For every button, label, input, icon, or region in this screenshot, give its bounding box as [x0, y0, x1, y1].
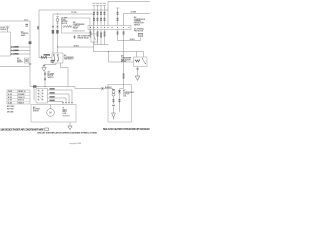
wire motor ground lead	[69, 122, 71, 126]
wire fuse line into condenser switch	[39, 57, 52, 59]
label wire 2 color	[14, 50, 18, 52]
connector arrow up C9	[44, 73, 46, 77]
wire drop pin6 to thermal line	[117, 30, 119, 41]
svg-text:SWITCH: SWITCH	[48, 77, 54, 79]
wire column 5	[116, 8, 119, 26]
connector C3 below relay box	[74, 35, 76, 39]
connector C13 on clutch return	[112, 105, 114, 107]
clutch diode D1	[118, 90, 121, 93]
label clutch return b x=118.5	[119, 101, 121, 102]
relay K2 condenser fan relay box	[134, 57, 148, 67]
switch S1 contact A	[53, 54, 54, 55]
antenna / sensor symbol	[6, 26, 10, 32]
switch S2 contacts rail A	[38, 90, 39, 91]
label drop pin x=100.1	[100, 33, 102, 34]
label clutch return x=118.5	[119, 99, 121, 100]
svg-text:CONDENSER: CONDENSER	[121, 57, 132, 59]
label fuse 3 amp rating	[100, 3, 103, 4]
label circuit col x=97.5	[97, 18, 99, 19]
label fuse F2 rating	[44, 54, 51, 56]
label circuit col x=117.5	[117, 18, 119, 19]
label under switch box b	[51, 62, 54, 63]
ground G2 triangle	[42, 68, 46, 72]
svg-text:BLOCK: BLOCK	[62, 23, 68, 25]
label wire 1 color	[14, 46, 18, 48]
wire fuse column 1	[93, 6, 96, 26]
label clutch return b x=112.5	[113, 101, 115, 102]
label drop pin x=103.6	[104, 32, 106, 33]
ground G1 below relay K2	[135, 76, 140, 81]
wire W3 to fan relay coil	[109, 52, 134, 63]
motor M1 circle	[47, 109, 55, 117]
switch S2 wiper marks	[39, 91, 42, 100]
svg-text:PROTECTOR: PROTECTOR	[134, 30, 144, 32]
wire to ground arrow	[113, 107, 115, 113]
svg-text:SWITCH: SWITCH	[17, 62, 23, 64]
module blower motor and resistor box	[31, 105, 76, 123]
legend table	[7, 90, 30, 104]
label wire blower M1 color	[50, 96, 55, 97]
label wire color col x=104.5	[104, 12, 106, 13]
svg-text:FUSE: FUSE	[62, 19, 66, 21]
svg-text:CONTROL: CONTROL	[21, 33, 29, 35]
wire W2 to condenser fan relay	[94, 51, 144, 53]
wire blower switch feed	[44, 71, 46, 87]
label drop pin7 upper b	[123, 33, 125, 34]
label drop pin b x=100.1	[100, 34, 102, 35]
wire clutch coil feed	[113, 89, 120, 91]
wire box out 1	[11, 46, 31, 48]
label on V39	[37, 26, 39, 29]
wire drops pins 3-5	[98, 30, 105, 45]
wire hot-at-all-times feed top right	[108, 2, 150, 26]
connector C11 marks	[33, 85, 37, 87]
connector arrow down C10	[44, 77, 46, 81]
svg-text:COIL: COIL	[123, 95, 127, 97]
connector glyph wire 3	[11, 53, 13, 55]
wire clutch returns	[114, 93, 120, 112]
wire K2 to ground	[137, 67, 139, 77]
label drop pin b x=103.6	[104, 33, 106, 34]
label wire color col x=97.5	[97, 12, 99, 13]
svg-text:M: M	[49, 111, 51, 115]
label fuse 2 amp rating	[96, 3, 99, 4]
label wire 3 color	[14, 53, 18, 55]
svg-text:COMPRESSOR: COMPRESSOR	[134, 19, 146, 21]
wire heater fuse feed right	[124, 14, 151, 26]
connector C7 on V30	[29, 63, 31, 65]
wire blower LO	[48, 102, 64, 105]
label wire blower HI color	[50, 88, 55, 89]
label fuse 4 amp rating	[103, 3, 106, 4]
label wire color fuse vert	[56, 30, 58, 34]
wire blower M2	[48, 94, 70, 105]
label drop pin x=96.6	[97, 32, 99, 33]
label on V30	[25, 24, 28, 25]
label under switch box	[51, 60, 55, 61]
svg-text:LOW: LOW	[63, 113, 67, 115]
connector glyph wire 1	[11, 46, 13, 48]
wire box out 2	[11, 50, 31, 52]
switch S2 blower speed switch box	[36, 89, 48, 104]
label wire blower LO color	[50, 100, 55, 101]
label clutch return x=112.5	[113, 99, 115, 100]
svg-text:IN FUSE: IN FUSE	[62, 21, 68, 23]
svg-text:1988 DODGE RAIDER AIR CONDITIO: 1988 DODGE RAIDER AIR CONDITIONER WIRE	[0, 128, 44, 131]
wire L2 long ground lead	[0, 66, 30, 68]
svg-text:BLK/WHT: BLK/WHT	[105, 87, 112, 89]
wire blower HI	[48, 90, 73, 105]
svg-text:SWITCH: SWITCH	[134, 24, 141, 26]
connector C6 box symbol	[25, 58, 29, 63]
svg-text:ENGINE 7: ENGINE 7	[18, 94, 25, 96]
wire diode tie	[120, 88, 124, 90]
svg-text:HOT RUN: HOT RUN	[7, 109, 14, 111]
wire W2 drops into fan relay	[137, 52, 144, 58]
wire switch to clutch feed line	[61, 63, 69, 87]
svg-text:COMPRESSOR: COMPRESSOR	[123, 92, 135, 94]
svg-text:18 BLK: 18 BLK	[74, 45, 80, 47]
svg-text:BLOWER: BLOWER	[48, 73, 56, 75]
connector C100 pin dots	[90, 27, 91, 28]
svg-text:MOTOR: MOTOR	[33, 110, 39, 112]
wire W4 thermal line	[118, 38, 141, 41]
relay contact blade	[94, 35, 96, 40]
label on V30 b	[25, 26, 28, 27]
wire L1 control head feed	[0, 21, 30, 87]
relay K1 A/C compressor clutch relay box	[62, 18, 91, 33]
switch S2 contacts rail B	[42, 90, 43, 91]
wire hot feed to blower fuse	[39, 10, 108, 58]
wire box out 3	[11, 53, 31, 55]
label drop pin6b	[117, 33, 119, 34]
wire W5 blower and clutch feed	[30, 87, 113, 89]
label circuit col x=94	[93, 18, 95, 19]
switch S1 contact B	[57, 54, 58, 55]
ground G4 open arrow	[112, 113, 116, 120]
wire fuse column 2	[96, 6, 99, 26]
svg-text:CIRCUIT IDENTIFICATION WIRING: CIRCUIT IDENTIFICATION WIRING DIAGRAM SY…	[37, 131, 98, 134]
label drop pin c x=103.6	[104, 35, 106, 36]
svg-text:FUSE: FUSE	[8, 91, 12, 93]
svg-text:HOT FEED: HOT FEED	[7, 106, 14, 108]
wire drop pin7 long to clutch	[123, 30, 125, 89]
connector glyph wire 2	[11, 49, 13, 51]
relay K2 coil	[135, 60, 140, 62]
wire drop pin1	[90, 30, 92, 39]
label wire color left vert	[52, 30, 54, 34]
svg-text:CONDENSER: CONDENSER	[64, 57, 75, 59]
label wire color col x=94	[93, 12, 95, 13]
label fuse 1 amp rating	[93, 3, 96, 4]
clutch coil top bar	[112, 89, 115, 91]
connector C1 on left vertical	[52, 26, 54, 28]
thermal protector TP1 symbol	[138, 33, 143, 36]
svg-text:GROUND: GROUND	[7, 112, 13, 114]
svg-text:COMPRESSOR: COMPRESSOR	[73, 24, 85, 26]
label circuit col x=104.5	[104, 18, 106, 19]
connector C5 on V30	[29, 41, 32, 44]
svg-text:MED 1: MED 1	[63, 111, 68, 113]
connector C100 bulkhead strip	[88, 26, 131, 30]
clutch L1 coil symbol	[112, 90, 115, 93]
switch S1 condenser fan motor switch box	[52, 53, 63, 63]
connector C2 on fuse vertical	[57, 26, 59, 28]
label wire color col x=101	[100, 12, 102, 13]
svg-text:CLUTCH: CLUTCH	[73, 26, 80, 28]
wire bus y44.5	[94, 30, 109, 45]
relay K2 contact	[142, 58, 143, 59]
label wire color col x=117.5	[117, 12, 119, 13]
wire ignition hot feed	[53, 14, 94, 53]
enclosure A/C compressor box	[108, 85, 132, 123]
svg-text:copyright 1988: copyright 1988	[69, 142, 81, 145]
wire switch to ground G2	[44, 63, 56, 67]
relay K1 coil symbol	[63, 26, 65, 28]
svg-text:MODE: MODE	[17, 60, 21, 62]
wire to freeze relay contact	[93, 14, 95, 34]
svg-text:MOTOR: MOTOR	[48, 75, 54, 77]
label drop pin1	[90, 32, 92, 33]
label drop pin c x=96.6	[97, 35, 99, 36]
label drop pin c x=100.1	[100, 36, 102, 37]
ground G3 triangle	[68, 126, 72, 130]
label wire blower M2 color	[50, 92, 55, 93]
wire contact to W1	[93, 42, 95, 47]
label drop pin6	[117, 32, 119, 33]
wire W1 switch to relay	[58, 47, 94, 52]
label circuit col x=101	[100, 18, 102, 19]
label drop pin7 lower b	[123, 75, 125, 76]
fuse F2 zigzag	[41, 56, 46, 59]
wire fuse column 4	[103, 6, 106, 26]
connector C12 on W5 right	[101, 87, 103, 89]
svg-text:BLOWER: BLOWER	[33, 109, 41, 111]
svg-text:RESISTOR: RESISTOR	[63, 115, 71, 117]
svg-text:MED 2: MED 2	[63, 109, 68, 111]
svg-text:16 LT: 16 LT	[24, 19, 28, 21]
module A/C control head box	[0, 32, 11, 56]
svg-text:CLUTCH: CLUTCH	[123, 94, 129, 96]
label drop pin b x=96.6	[97, 33, 99, 34]
relay K1 contact box	[91, 34, 98, 42]
label drop pin7 lower	[123, 74, 125, 75]
connector C8 on ground lead	[43, 65, 45, 66]
svg-text:PROTECTOR: PROTECTOR	[134, 23, 145, 25]
svg-text:SENSOR: SENSOR	[0, 29, 7, 31]
label drop pin1b	[90, 33, 92, 34]
label drop pin7 upper	[123, 32, 125, 33]
wire fuse to condenser switch	[57, 17, 59, 54]
wire switch common feed	[33, 87, 35, 101]
label drop pin7 lower c	[123, 77, 125, 78]
fuse F1 15A circle symbol	[56, 17, 58, 24]
svg-text:C-300: C-300	[8, 100, 12, 102]
connector ticks on drops	[62, 102, 73, 104]
svg-text:SEE ALSO HEATER SYSTEM CIRCUIT: SEE ALSO HEATER SYSTEM CIRCUIT DIAGRAM	[103, 128, 150, 131]
connector C6 inner mark	[25, 59, 27, 62]
svg-text:B-200: B-200	[8, 97, 12, 99]
wire blower M1	[48, 98, 67, 105]
wire fuse column 3	[100, 6, 103, 26]
